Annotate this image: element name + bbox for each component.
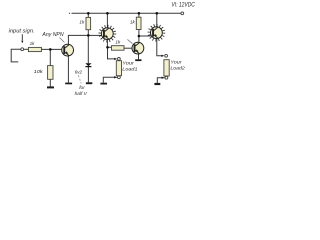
svg-text:Load1: Load1 xyxy=(122,66,138,72)
svg-text:1k: 1k xyxy=(30,41,36,46)
svg-text:half V: half V xyxy=(75,91,88,97)
svg-text:1k: 1k xyxy=(115,39,121,44)
svg-text:Any NPN: Any NPN xyxy=(41,32,63,38)
svg-text:for: for xyxy=(79,85,85,91)
svg-text:Your: Your xyxy=(122,61,134,67)
svg-text:1k: 1k xyxy=(130,20,136,25)
svg-text:10k: 10k xyxy=(34,69,43,75)
svg-text:VI: 12VDC: VI: 12VDC xyxy=(171,2,195,8)
svg-text:Your: Your xyxy=(170,59,182,65)
svg-text:input sign.: input sign. xyxy=(9,28,35,34)
svg-text:Load2: Load2 xyxy=(170,65,185,71)
svg-text:6v2: 6v2 xyxy=(75,70,83,76)
svg-text:1k: 1k xyxy=(79,19,85,24)
